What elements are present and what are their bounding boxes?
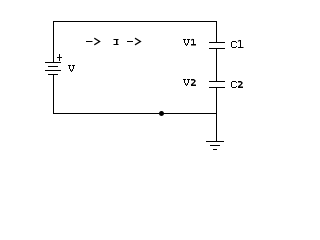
battery V plate long lower xyxy=(45,70,61,72)
label I current xyxy=(114,39,119,45)
battery plus sign xyxy=(57,54,62,61)
ground bar long xyxy=(206,141,224,143)
label V1 xyxy=(183,39,196,46)
capacitor C2 top plate xyxy=(209,81,225,83)
capacitor C2 bottom plate xyxy=(209,87,225,89)
wire right middle (C1 to C2) xyxy=(216,49,218,81)
wire right upper (top wire to C1) xyxy=(216,21,218,42)
wire left upper (battery + terminal to top wire) xyxy=(53,21,55,62)
wire right lower (C2 to bottom wire) xyxy=(216,88,218,114)
label arrow head 1 xyxy=(94,38,99,45)
label V2 xyxy=(183,79,196,86)
wire top xyxy=(53,21,217,23)
label V battery voltage xyxy=(68,65,75,72)
ground bar middle xyxy=(210,145,220,147)
capacitor C1 bottom plate xyxy=(209,48,225,50)
battery V plate short upper xyxy=(48,66,58,68)
label arrow dash 1 xyxy=(86,41,93,43)
battery V plate short bottom xyxy=(48,74,58,76)
label arrow dash 2 xyxy=(127,41,133,43)
label C2 xyxy=(232,82,244,88)
label C1 xyxy=(232,40,244,47)
ground bar short xyxy=(213,149,217,151)
junction node dot xyxy=(159,111,164,116)
label arrow head 2 xyxy=(135,38,140,45)
wire left lower (battery - terminal to bottom wire) xyxy=(53,75,55,114)
capacitor C1 top plate xyxy=(209,42,225,44)
wire bottom xyxy=(53,113,217,115)
battery V plate long top xyxy=(45,62,61,64)
wire ground lead (bottom wire to ground) xyxy=(216,114,218,141)
